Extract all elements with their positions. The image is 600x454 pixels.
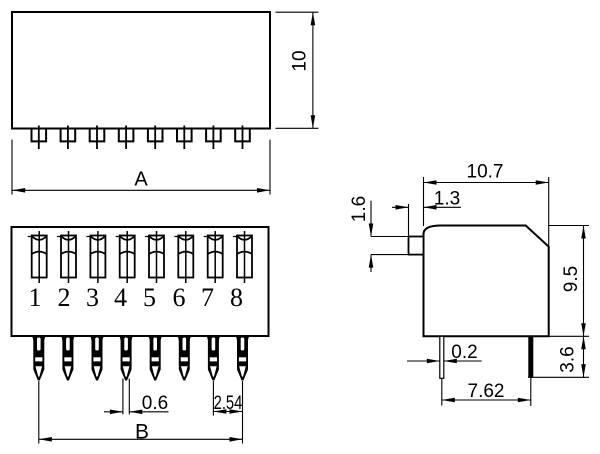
dimension 7.62 line <box>442 399 531 401</box>
dimension 0.6 extension lines <box>122 379 124 415</box>
svg-text:4: 4 <box>114 283 127 312</box>
dimension 0.2 arrows <box>407 360 440 362</box>
dimension 1.3 extension line <box>408 204 410 237</box>
dimension B line <box>39 438 243 440</box>
front view pin 8 <box>235 126 250 150</box>
dimension 7.62 extension lines <box>441 379 443 406</box>
svg-text:10: 10 <box>290 50 311 71</box>
svg-text:1.3: 1.3 <box>434 188 460 209</box>
svg-text:2.54: 2.54 <box>214 392 243 413</box>
svg-text:6: 6 <box>173 283 186 312</box>
switch slot 6 <box>174 231 193 283</box>
side view slider actuator <box>409 237 424 255</box>
top view pin 5 <box>148 336 163 381</box>
top view pin 6 <box>177 336 192 381</box>
front view pin 1 <box>32 126 47 150</box>
top view body <box>12 227 269 336</box>
top view pin 8 <box>235 336 250 381</box>
switch slot 2 <box>57 231 76 283</box>
svg-text:1.6: 1.6 <box>349 196 370 222</box>
front view pin 5 <box>148 126 163 150</box>
dimension 1.3 arrows <box>392 206 409 208</box>
svg-text:10.7: 10.7 <box>467 162 504 183</box>
front view pin 7 <box>206 126 221 150</box>
svg-text:5: 5 <box>143 283 156 312</box>
switch slot 5 <box>145 231 164 283</box>
switch slot 7 <box>204 231 223 283</box>
top view pin 2 <box>60 336 75 381</box>
switch slot 1 <box>28 231 47 283</box>
dimension 10 line <box>312 12 314 128</box>
front view body <box>12 12 270 129</box>
dimension 3.6 line <box>583 336 585 377</box>
svg-text:7: 7 <box>201 283 214 312</box>
dimension 10 extension lines <box>276 11 319 13</box>
svg-text:3.6: 3.6 <box>558 346 579 372</box>
dimension 3.6 extension line <box>528 376 589 378</box>
top view pin 3 <box>90 336 105 381</box>
side view body <box>424 226 549 337</box>
svg-text:7.62: 7.62 <box>468 381 505 402</box>
svg-text:0.6: 0.6 <box>142 393 168 414</box>
switch slot 8 <box>233 231 252 283</box>
dimension 2.54 + B shared extension line pin8 <box>242 381 244 444</box>
dimension 1.6 arrows <box>370 201 372 237</box>
dimension 10.7 extension lines <box>423 177 425 226</box>
dimension 9.5 extension lines <box>549 225 589 227</box>
top view pin 4 <box>119 336 134 381</box>
front view pin 4 <box>119 126 134 150</box>
top view pin 1 <box>31 336 46 381</box>
svg-text:0.2: 0.2 <box>451 342 477 363</box>
dimension B extension line pin1 <box>38 381 40 444</box>
dimension 10.7 line <box>424 182 549 184</box>
switch slot 3 <box>86 231 105 283</box>
dimension 0.6 arrows <box>104 411 123 413</box>
svg-text:2: 2 <box>58 283 71 312</box>
dimension 9.5 line <box>583 226 585 337</box>
svg-text:B: B <box>135 421 149 444</box>
dimension 2.54 line <box>213 411 242 413</box>
side view right pin <box>528 336 533 377</box>
dimension 1.6 extension lines <box>371 236 409 238</box>
dimension A line <box>12 189 270 191</box>
side view left pin <box>440 336 444 378</box>
front view pin 2 <box>61 126 76 150</box>
dimension 2.54 extension line pin7 <box>212 381 214 416</box>
switch slot 4 <box>116 231 135 283</box>
svg-text:1: 1 <box>29 283 42 312</box>
svg-text:9.5: 9.5 <box>561 266 582 292</box>
dimension A extension lines <box>11 140 13 195</box>
front view pin 3 <box>90 126 105 150</box>
top view pin 7 <box>206 336 221 381</box>
front view pin 6 <box>177 126 192 150</box>
svg-text:A: A <box>134 169 148 191</box>
svg-text:8: 8 <box>230 283 243 312</box>
svg-text:3: 3 <box>86 283 99 312</box>
